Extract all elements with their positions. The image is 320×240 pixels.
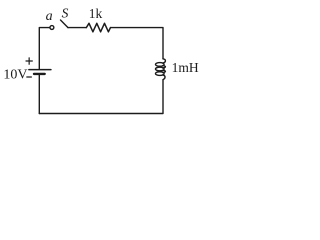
- svg-text:1k: 1k: [89, 6, 103, 21]
- svg-text:10V: 10V: [3, 67, 27, 82]
- node a terminal circle: [50, 26, 54, 30]
- battery V1 top plate (+): [29, 69, 51, 71]
- svg-text:1mH: 1mH: [172, 60, 199, 75]
- inductor L coil: [156, 59, 166, 80]
- wire switch to resistor: [68, 27, 86, 29]
- battery V1 bottom plate (-): [34, 73, 45, 75]
- wire resistor to top-right corner and down to inductor: [111, 28, 164, 59]
- resistor R 1k zigzag: [86, 23, 110, 32]
- battery plus sign: [26, 58, 32, 64]
- svg-text:a: a: [46, 9, 53, 24]
- wire inductor to bottom-right corner: [39, 80, 163, 114]
- battery minus sign: [27, 76, 32, 78]
- wire battery bottom to bottom-left corner: [38, 75, 40, 114]
- wire top-left stub from corner to switch terminal: [39, 28, 49, 69]
- switch S blade: [61, 20, 69, 28]
- svg-text:S: S: [62, 5, 69, 20]
